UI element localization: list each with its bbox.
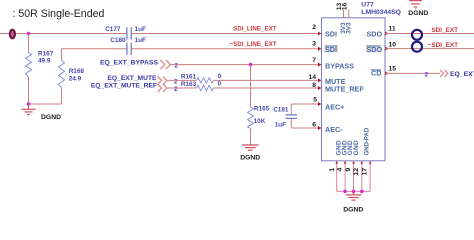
node C junction on EQ_EXT_BYPASS — [249, 63, 253, 67]
connector J1 coax input — [10, 30, 15, 38]
pin name SDI — [325, 29, 337, 38]
wire CD to port EQ_EXT — [385, 72, 440, 74]
pin 15 arrow CD — [385, 66, 396, 76]
pin name 3V3 a — [340, 22, 347, 34]
pin name ~CD with overline — [371, 69, 381, 78]
svg-text:SDI: SDI — [325, 45, 337, 54]
svg-text:C177: C177 — [105, 26, 121, 33]
svg-text:6: 6 — [312, 122, 316, 129]
pin name BYPASS — [325, 61, 354, 70]
svg-text:24.9: 24.9 — [69, 76, 82, 83]
svg-text:7: 7 — [312, 57, 316, 64]
svg-text:5: 5 — [313, 97, 317, 104]
pin name MUTE — [325, 77, 346, 86]
svg-text:: 50R Single-Ended: : 50R Single-Ended — [13, 8, 105, 20]
svg-text:AEC-: AEC- — [325, 125, 343, 134]
node D junction pin4 — [343, 190, 347, 194]
svg-text:EQ_EXT_BYPASS: EQ_EXT_BYPASS — [100, 60, 159, 67]
pin 8 arrow MUTE_REF — [312, 82, 321, 90]
svg-text:DGND: DGND — [343, 206, 363, 213]
net label ~SDI_LINE_EXT — [230, 41, 277, 48]
svg-text:9: 9 — [345, 168, 352, 172]
IC U77 LMH0344SQ — [322, 1, 401, 160]
svg-text:SDI_LINE_EXT: SDI_LINE_EXT — [233, 25, 277, 32]
pin number 9 — [345, 168, 352, 172]
svg-text:SDO: SDO — [367, 29, 383, 38]
wire EQ_EXT_MUTE to R161 — [167, 79, 197, 81]
svg-text:0: 0 — [218, 80, 222, 87]
wire R168 top stem — [61, 49, 63, 61]
svg-text:1: 1 — [329, 168, 336, 172]
svg-text:DGND: DGND — [240, 155, 260, 162]
svg-text:SDI: SDI — [325, 29, 337, 38]
svg-text:10: 10 — [389, 42, 397, 49]
svg-text:LMH0344SQ: LMH0344SQ — [361, 9, 401, 16]
pin 13 stub 3V3 — [336, 3, 343, 18]
svg-text:R163: R163 — [181, 81, 197, 88]
pin name GND 1 — [336, 140, 343, 155]
svg-text:2: 2 — [175, 63, 179, 70]
port EQ_EXT_MUTE_REF — [91, 82, 178, 93]
pin 1 GND wire — [335, 161, 338, 192]
svg-text:R165: R165 — [254, 106, 270, 113]
svg-text:3V3: 3V3 — [346, 22, 353, 34]
pin name GND 4 — [341, 140, 348, 155]
pin name MUTE_REF — [325, 85, 364, 94]
node F junction pin12 — [360, 190, 364, 194]
svg-text:4: 4 — [337, 168, 344, 172]
pin number 17 — [362, 168, 369, 176]
pin 12 GND wire — [360, 161, 363, 192]
node A junction on SDI_LINE_EXT — [27, 32, 31, 36]
svg-text:1uF: 1uF — [135, 26, 146, 33]
svg-text:14: 14 — [308, 74, 316, 81]
svg-text:8: 8 — [312, 82, 316, 89]
svg-text:15: 15 — [389, 66, 397, 73]
svg-text:U77: U77 — [361, 1, 374, 8]
svg-text:DGND: DGND — [41, 114, 61, 121]
svg-text:R168: R168 — [69, 68, 85, 75]
svg-text:R167: R167 — [38, 50, 54, 57]
pin 17 GND-PAD wire — [369, 161, 372, 192]
pin name GND-PAD 17 — [364, 127, 370, 155]
pin 10 arrow ~SDO — [385, 42, 396, 51]
net label SDI_LINE_EXT — [233, 25, 277, 32]
svg-text:2: 2 — [174, 86, 178, 93]
wire R167 top stem — [28, 34, 30, 53]
pin 3 arrow ~SDI — [312, 41, 321, 51]
resistor R165 — [248, 106, 270, 129]
resistor R167 — [26, 50, 54, 77]
pin number 12 — [353, 168, 360, 176]
resistor R168 — [59, 61, 85, 89]
svg-text:CD: CD — [371, 69, 381, 78]
wire net SDI_LINE_EXT segment left — [0, 33, 127, 35]
wire R167 bottom stem — [28, 77, 30, 104]
wire net ~SDI_LINE_EXT segment right to pin 3 — [132, 48, 319, 50]
pin 4 GND wire — [344, 161, 347, 192]
pin name GND 12 — [353, 140, 360, 155]
svg-text:2: 2 — [312, 24, 316, 31]
wire EQ_EXT_MUTE_REF to R163 — [167, 87, 197, 89]
pin name ~SDO with overline — [366, 45, 383, 54]
resistor R163 — [181, 80, 222, 90]
capacitor C177 — [105, 26, 146, 40]
svg-text:C181: C181 — [273, 106, 289, 113]
wire net ~SDI_EXT — [385, 48, 474, 50]
svg-text:AEC+: AEC+ — [325, 103, 344, 112]
wire net SDI_LINE_EXT segment right to pin 2 — [132, 33, 319, 35]
svg-text:~SDI_EXT: ~SDI_EXT — [428, 42, 458, 49]
svg-text:17: 17 — [362, 168, 369, 176]
port EQ_EXT right — [425, 70, 474, 79]
svg-text:3: 3 — [312, 41, 316, 48]
wire EQ_EXT_BYPASS down to R165 — [250, 65, 252, 107]
wire AEC- to pin 6 — [291, 127, 318, 129]
pin name SDO — [367, 29, 383, 38]
pin 5 arrow AEC+ — [313, 97, 321, 106]
svg-text:BYPASS: BYPASS — [325, 61, 354, 70]
pin 7 arrow BYPASS — [312, 57, 321, 67]
pin number 4 — [337, 168, 344, 172]
svg-text:DGND: DGND — [408, 10, 428, 17]
wire R163 to pin 8 — [214, 87, 319, 89]
wire ground bus bottom — [337, 190, 370, 192]
svg-text:0: 0 — [218, 73, 222, 80]
port EQ_EXT_MUTE — [107, 75, 178, 86]
svg-text:16: 16 — [342, 3, 349, 11]
svg-text:11: 11 — [389, 25, 396, 32]
pin 9 GND wire — [352, 161, 355, 192]
ground DGND top right — [408, 1, 428, 18]
capacitor C181 — [273, 104, 297, 129]
pin name 3V3 b — [346, 22, 353, 34]
pin 14 arrow MUTE — [308, 74, 321, 83]
svg-text:~SDI_LINE_EXT: ~SDI_LINE_EXT — [230, 41, 277, 48]
net label SDI_EXT — [431, 27, 458, 34]
wire ground bus left — [29, 103, 62, 105]
port EQ_EXT_BYPASS — [100, 60, 179, 70]
svg-text:C180: C180 — [110, 37, 126, 44]
wire R161 to pin 14 — [214, 79, 319, 81]
node E junction pin9 — [352, 190, 356, 194]
pin name GND 9 — [347, 140, 354, 155]
svg-text:SDO: SDO — [367, 45, 383, 54]
svg-text:1uF: 1uF — [135, 37, 146, 44]
pin name AEC+ — [325, 103, 344, 112]
svg-text:GND: GND — [353, 140, 360, 155]
pin number 1 — [329, 168, 336, 172]
net label ~SDI_EXT — [428, 42, 458, 49]
svg-text:49.9: 49.9 — [38, 57, 51, 64]
svg-text:1uF: 1uF — [275, 122, 286, 129]
svg-text:2: 2 — [174, 78, 178, 85]
pin name ~SDI with overline — [324, 45, 338, 54]
wire net ~SDI_LINE_EXT segment left — [62, 48, 127, 50]
pin 11 arrow SDO — [385, 25, 396, 35]
ground DGND bottom — [343, 191, 363, 213]
pin 2 arrow SDI — [312, 24, 321, 36]
svg-text:SDI_EXT: SDI_EXT — [431, 27, 458, 34]
wire R168 bottom stem — [61, 88, 63, 104]
ground DGND under R165 — [240, 145, 260, 162]
resistor R161 — [181, 73, 222, 83]
node B junction at ground — [27, 102, 31, 106]
ground DGND left — [22, 104, 62, 121]
pin 6 arrow AEC- — [312, 122, 321, 130]
svg-text:12: 12 — [353, 168, 360, 176]
svg-text:10K: 10K — [254, 118, 266, 125]
svg-text:MUTE_REF: MUTE_REF — [325, 85, 364, 94]
svg-text:GND-PAD: GND-PAD — [364, 127, 370, 155]
connector P2 differential pair — [412, 30, 422, 52]
svg-text:R161: R161 — [181, 73, 197, 80]
wire net SDI_EXT — [385, 33, 474, 35]
pin 16 stub 3V3 — [342, 3, 349, 18]
svg-text:2: 2 — [425, 71, 429, 78]
svg-text:EQ_EXT_MUTE_REF: EQ_EXT_MUTE_REF — [91, 82, 157, 89]
wire AEC+ to pin 5 — [291, 103, 318, 105]
wire EQ_EXT_BYPASS to pin 7 — [170, 64, 319, 66]
capacitor C180 — [110, 37, 146, 55]
wire R165 bottom stem — [250, 129, 252, 145]
pin name AEC- — [325, 125, 343, 134]
svg-text:EQ_EXT: EQ_EXT — [450, 71, 474, 78]
svg-text:EQ_EXT_MUTE: EQ_EXT_MUTE — [107, 75, 157, 82]
